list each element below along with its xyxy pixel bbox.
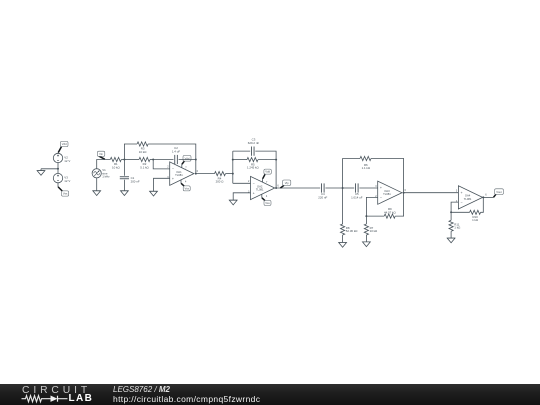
- ground (R8): [339, 243, 347, 248]
- label R3 value: [139, 147, 147, 154]
- wire OA2 + input to ground: [233, 193, 250, 200]
- resistor R11: [449, 220, 453, 231]
- wire V3 minus down: [57, 183, 59, 187]
- wire node C feedback vertical: [232, 151, 234, 183]
- ground (R7): [363, 242, 371, 247]
- wire node A to R2: [124, 159, 139, 161]
- wire node A to C1: [123, 160, 125, 176]
- op-amp OA3: [378, 181, 402, 204]
- svg-text:Vdd: Vdd: [62, 142, 67, 146]
- wire R5 to output vertical: [258, 159, 276, 161]
- label V2 value: [64, 156, 70, 163]
- svg-text:TL081: TL081: [464, 197, 472, 201]
- pin 3 label OA2: [248, 190, 250, 193]
- wire R1 to node A: [121, 159, 124, 161]
- wire node C to OA2 inverting input: [233, 182, 251, 184]
- label C2 value: [172, 146, 180, 153]
- label C5 value: [351, 192, 363, 199]
- svg-text:6: 6: [485, 194, 487, 197]
- ground (R11): [447, 238, 455, 243]
- label C3 value: [248, 138, 260, 145]
- svg-text:5.1 kΩ: 5.1 kΩ: [140, 165, 149, 169]
- svg-text:4: 4: [266, 195, 268, 198]
- capacitor C1: [120, 177, 129, 179]
- label V3 value: [64, 176, 70, 183]
- svg-text:220 nF: 220 nF: [318, 195, 327, 199]
- pin 6 label OA4: [485, 194, 487, 197]
- wire OA3 output to OA4: [404, 192, 459, 194]
- pin 3 label OA3: [375, 185, 377, 188]
- flag node Vdd (OA2): [263, 169, 272, 179]
- op-amp OA1 V- pin stub: [180, 180, 182, 184]
- label C1 value: [131, 176, 140, 183]
- svg-text:200 Ω: 200 Ω: [216, 180, 225, 184]
- wire C3 to output vertical: [255, 151, 276, 160]
- label R6 value: [362, 163, 371, 170]
- svg-text:+: +: [461, 191, 463, 195]
- svg-text:+: +: [253, 192, 255, 196]
- logo diode: [51, 396, 68, 402]
- wire node D to C5: [343, 187, 355, 189]
- resistor R4: [215, 172, 226, 176]
- svg-text:1.014 uF: 1.014 uF: [351, 195, 363, 199]
- flag node Vdd (OA1): [182, 156, 191, 165]
- pin 4 label OA1: [185, 181, 187, 184]
- svg-text:TL081: TL081: [175, 173, 183, 177]
- wire V2 minus to V3 plus: [57, 163, 59, 174]
- pin 2 label OA1: [167, 165, 169, 168]
- wire R4 to node C: [226, 173, 233, 175]
- label R4 value: [216, 177, 225, 184]
- wire OA4 output to Vout flag: [483, 196, 493, 198]
- svg-text:6: 6: [197, 170, 199, 173]
- svg-text:7: 7: [266, 181, 268, 184]
- wire node D down to R8: [342, 188, 344, 224]
- pin 6 label OA1: [197, 170, 199, 173]
- capacitor C2: [175, 155, 178, 164]
- wire node E down to R7: [365, 216, 367, 224]
- flag node Vss (OA1): [181, 183, 190, 191]
- flag node Vdd (supply): [58, 141, 68, 152]
- svg-text:1 kΩ: 1 kΩ: [454, 226, 461, 230]
- wire supply midpoint to ground: [41, 169, 58, 171]
- junction supply midpoint: [57, 168, 59, 170]
- svg-text:1 kHz: 1 kHz: [102, 175, 110, 179]
- svg-text:4: 4: [185, 181, 187, 184]
- wire C3 top branch left: [233, 150, 250, 152]
- wire C1 to ground: [123, 180, 125, 191]
- svg-text:−: −: [461, 201, 463, 205]
- svg-text:Vin: Vin: [99, 152, 103, 156]
- op-amp OA2 V+ pin stub: [262, 179, 264, 183]
- wire C2 to output node: [179, 160, 196, 174]
- node F junction: [450, 211, 452, 213]
- svg-text:200 nF: 200 nF: [131, 179, 140, 183]
- label R9 value: [384, 207, 396, 214]
- wire node E to R9: [366, 215, 384, 217]
- ground (C1): [121, 191, 129, 196]
- svg-text:2: 2: [167, 165, 169, 168]
- wire feedback vertical to OA2 output: [275, 160, 277, 188]
- voltage source V1 (sine): [92, 169, 101, 178]
- svg-text:Vdd: Vdd: [185, 157, 190, 161]
- voltage source V2: [53, 153, 62, 162]
- flag node Vss (supply): [58, 187, 69, 196]
- svg-text:−: −: [172, 167, 174, 171]
- wire OA1 + input to ground: [154, 178, 170, 191]
- label R11 value: [454, 222, 461, 229]
- wire C4 to node D: [325, 187, 342, 189]
- pin 3 label OA4: [456, 190, 458, 193]
- logo resistor squiggle: [22, 396, 51, 402]
- flag node Vlp (OA2 output): [280, 180, 290, 188]
- node OA2 output junction: [275, 187, 277, 189]
- pin 2 label OA3: [375, 195, 377, 198]
- svg-text:6: 6: [405, 189, 407, 192]
- svg-text:7: 7: [185, 166, 187, 169]
- flag node Vss (OA2): [262, 198, 271, 206]
- junction C2-R3 vertical: [195, 159, 197, 161]
- op-amp OA2 V- pin stub: [261, 194, 263, 198]
- wire C5 to OA3 + input: [359, 187, 377, 189]
- svg-text:+: +: [380, 186, 382, 190]
- wire OA3 - input to node E: [366, 197, 377, 216]
- wire R2 to node B: [150, 159, 153, 161]
- wire R11 to ground: [450, 231, 452, 238]
- svg-text:−: −: [380, 196, 382, 200]
- resistor R2: [139, 157, 150, 161]
- svg-text:+: +: [172, 177, 174, 181]
- label R1 value: [112, 162, 120, 169]
- wire node B to C2: [153, 159, 173, 161]
- node OA4 output junction: [482, 196, 484, 198]
- pin 7 label OA2: [266, 181, 268, 184]
- label V1 value: [102, 168, 110, 178]
- pin 6 label OA3: [405, 189, 407, 192]
- flag node Vout: [494, 189, 504, 198]
- ground (OA1 + input): [150, 191, 158, 196]
- node C junction: [232, 173, 234, 175]
- ground (OA2 + input): [229, 200, 237, 205]
- svg-text:6: 6: [277, 184, 279, 187]
- wire OA1 output to R4: [196, 173, 215, 175]
- svg-text:52.36 kΩ: 52.36 kΩ: [346, 229, 358, 233]
- label R5 value: [247, 162, 259, 169]
- wire node F down to R11: [450, 212, 452, 220]
- pin 7 label OA1: [185, 166, 187, 169]
- pin 2 label OA2: [248, 180, 250, 183]
- wire node D up to R6: [343, 159, 360, 189]
- svg-text:44.07 kΩ: 44.07 kΩ: [384, 210, 396, 214]
- svg-text:Vlp: Vlp: [285, 181, 289, 185]
- svg-text:1.4 uF: 1.4 uF: [172, 149, 180, 153]
- svg-text:Vss: Vss: [265, 201, 270, 205]
- op-amp OA1 V+ pin stub: [181, 164, 183, 168]
- wire node A up to feedback top: [124, 144, 137, 160]
- svg-text:Vdd: Vdd: [265, 170, 270, 174]
- wire R5 branch left: [233, 159, 247, 161]
- capacitor C4: [322, 183, 325, 192]
- svg-text:10 kΩ: 10 kΩ: [370, 229, 378, 233]
- svg-text:2: 2: [248, 180, 250, 183]
- svg-text:1.1 kΩ: 1.1 kΩ: [362, 166, 371, 170]
- label R8 value: [346, 226, 358, 233]
- resistor R8: [341, 224, 345, 235]
- svg-text:10 kΩ: 10 kΩ: [112, 165, 120, 169]
- wire R3 to output vertical: [148, 144, 196, 160]
- resistor R6: [360, 156, 371, 160]
- pin 6 label OA2: [277, 184, 279, 187]
- wire R6 to output vertical: [371, 159, 404, 193]
- node A junction: [123, 159, 125, 161]
- svg-text:−: −: [253, 182, 255, 186]
- node E junction: [365, 215, 367, 217]
- ground (supply midpoint): [37, 171, 45, 176]
- capacitor C5: [356, 183, 359, 192]
- voltage source V3: [53, 173, 62, 182]
- op-amp OA4: [458, 186, 482, 209]
- wire node F to R10: [451, 211, 470, 213]
- svg-text:Vss: Vss: [63, 192, 68, 196]
- node OA3 output junction: [403, 192, 405, 194]
- junction R5-C3 vertical: [275, 159, 277, 161]
- label R7 value: [370, 226, 378, 233]
- pin 3 label OA1: [167, 176, 169, 179]
- svg-text:12 V: 12 V: [64, 159, 70, 163]
- wire R7 to ground: [365, 235, 367, 242]
- svg-text:TL081: TL081: [383, 192, 391, 196]
- ground (V1): [93, 191, 101, 196]
- label R2 value: [140, 162, 149, 169]
- wire R9 to output vertical: [395, 193, 403, 216]
- resistor R1: [110, 157, 121, 161]
- label C4 value: [318, 192, 327, 199]
- svg-text:629.2 nF: 629.2 nF: [248, 141, 260, 145]
- flag node Vin: [97, 151, 105, 159]
- capacitor C3: [251, 147, 254, 156]
- svg-text:Vout: Vout: [496, 190, 502, 194]
- svg-text:TL081: TL081: [256, 188, 264, 192]
- svg-text:10 kΩ: 10 kΩ: [139, 150, 147, 154]
- svg-text:12 V: 12 V: [64, 179, 70, 183]
- node OA1 output junction: [195, 173, 197, 175]
- resistor R9: [384, 214, 395, 218]
- svg-text:1.245 kΩ: 1.245 kΩ: [247, 166, 259, 170]
- svg-text:1 kΩ: 1 kΩ: [472, 218, 479, 222]
- wire OA4 - input to node F: [451, 202, 458, 212]
- node B junction: [152, 159, 154, 161]
- svg-text:3: 3: [375, 185, 377, 188]
- pin 4 label OA2: [266, 195, 268, 198]
- resistor R5: [247, 158, 258, 162]
- junction node C - R5 branch: [232, 159, 234, 161]
- wire V1 to ground: [96, 178, 98, 191]
- resistor R10: [470, 210, 481, 214]
- wire OA2 output to C4: [276, 187, 320, 189]
- svg-text:3: 3: [456, 190, 458, 193]
- label R10 value: [472, 215, 479, 222]
- svg-text:Vss: Vss: [184, 187, 189, 191]
- wire R10 to OA4 output: [481, 197, 484, 212]
- resistor R3: [137, 142, 148, 146]
- wire node B to inverting input: [153, 160, 170, 169]
- op-amp OA1: [170, 162, 194, 185]
- wire R8 to ground: [342, 235, 344, 243]
- resistor R7: [364, 224, 368, 235]
- wire V1 to R1: [97, 160, 111, 169]
- pin 2 label OA4: [456, 200, 458, 203]
- node D junction: [342, 187, 344, 189]
- op-amp OA2: [251, 176, 275, 199]
